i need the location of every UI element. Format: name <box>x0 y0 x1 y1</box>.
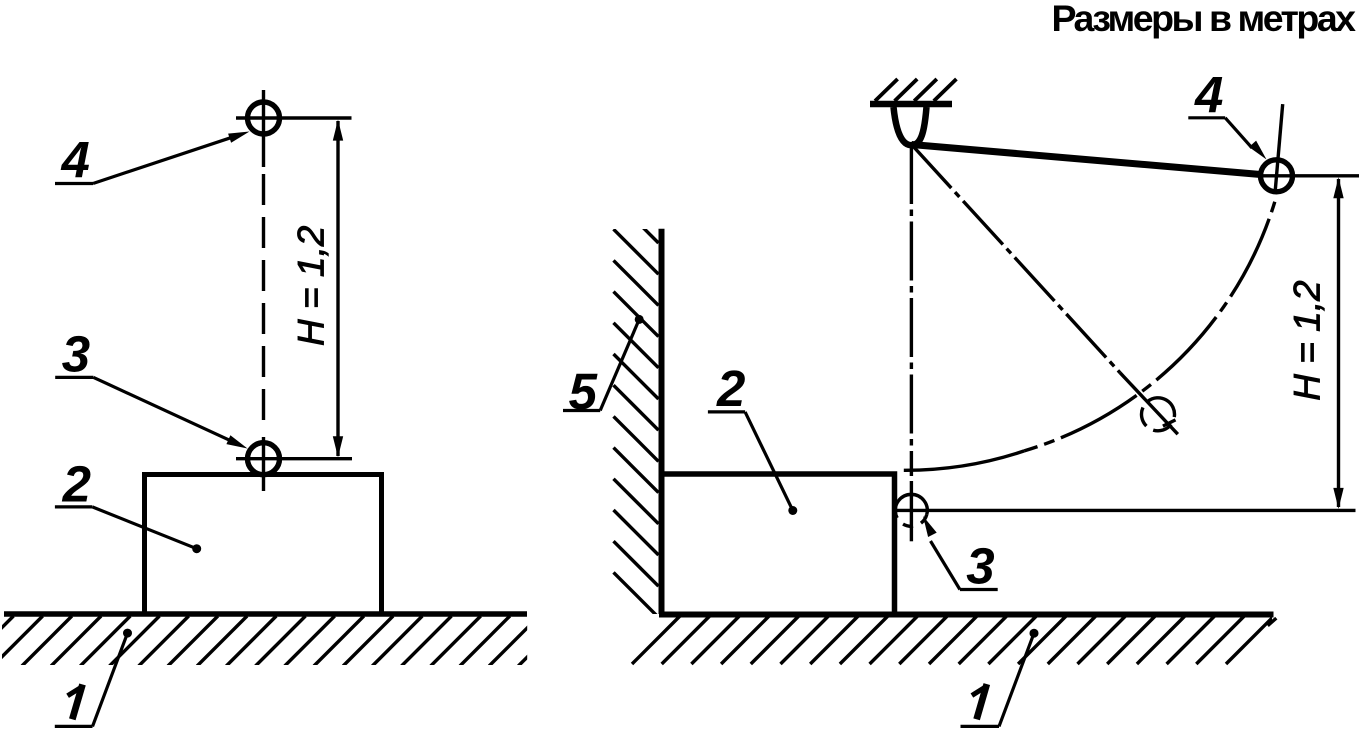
label 1 left <box>72 684 82 719</box>
wall hatch <box>614 198 659 617</box>
wall <box>659 229 665 614</box>
svg-text:3: 3 <box>966 537 994 594</box>
hook <box>894 107 927 145</box>
svg-text:4: 4 <box>61 131 90 188</box>
vertical centerline (rest position) <box>910 145 913 476</box>
crosshair circle 4 right <box>1275 104 1283 191</box>
ground line right <box>659 612 1274 618</box>
rest bob dashed circle 3 <box>895 494 927 514</box>
label 1 right <box>977 684 987 719</box>
svg-text:H = 1,2: H = 1,2 <box>1287 280 1328 401</box>
swing arc <box>1024 196 1276 451</box>
dimension line left <box>336 121 339 456</box>
extension line top left <box>236 116 352 119</box>
ceiling hatch <box>875 79 956 101</box>
svg-text:2: 2 <box>62 456 91 513</box>
dashed centerline left <box>262 90 265 167</box>
extension line top right <box>1258 174 1359 177</box>
svg-text:H = 1,2: H = 1,2 <box>291 225 332 346</box>
circle 4 right <box>1261 160 1293 192</box>
ground line left <box>4 611 527 617</box>
circle 3 left <box>248 443 280 475</box>
svg-text:4: 4 <box>1194 66 1223 123</box>
ground hatch left <box>0 616 568 666</box>
ground hatch right <box>632 616 1274 664</box>
ghost ticks <box>1163 420 1176 426</box>
svg-text:3: 3 <box>62 326 90 383</box>
dimension line right <box>1337 179 1340 507</box>
box 2 right <box>662 474 895 614</box>
reference line bottom right <box>894 509 1356 512</box>
svg-text:2: 2 <box>716 360 745 417</box>
ghost circle (intermediate bob) <box>1135 392 1180 437</box>
svg-text:Размеры в метрах: Размеры в метрах <box>1052 0 1357 39</box>
swing arc final dash <box>904 451 1024 470</box>
box 2 left <box>145 475 382 615</box>
extension line bottom left <box>236 457 352 460</box>
ceiling bar <box>870 101 952 108</box>
circle 4 left <box>248 102 280 134</box>
pendulum rod <box>912 145 1263 175</box>
ground hatch stub right <box>1268 618 1277 626</box>
diagonal centerline (intermediate position) <box>912 145 1121 373</box>
